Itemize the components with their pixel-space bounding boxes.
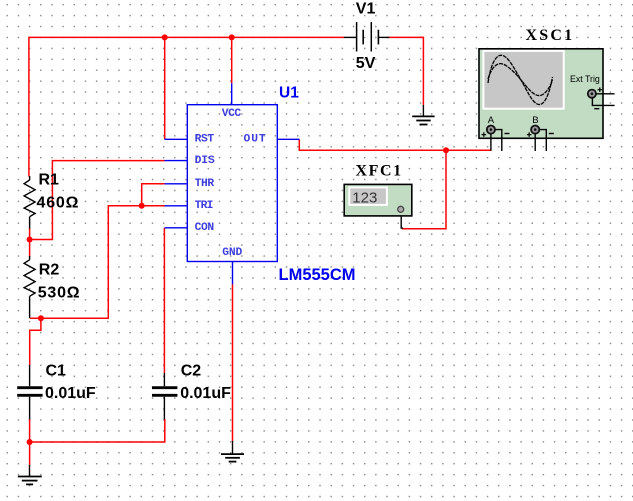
- svg-text:XSC1: XSC1: [526, 27, 575, 44]
- junction OUT net at XFC1 branch: [443, 147, 449, 153]
- wire: bottom net C1 node to C2 bottom: [30, 419, 165, 442]
- wire: battery positive to ground drop: [389, 37, 424, 105]
- svg-text:Ext Trig: Ext Trig: [570, 74, 600, 84]
- pin GND stub: [232, 262, 234, 285]
- junction on top rail at RST drop: [162, 34, 168, 40]
- Ext Trig terminal: [588, 90, 596, 98]
- svg-text:R2: R2: [39, 261, 60, 278]
- junction TRI net at THR link: [139, 203, 145, 209]
- wire: R2 bottom node jog down to C1: [30, 318, 41, 365]
- wire: OUT net to scope channel A: [299, 139, 491, 150]
- frequency counter XFC1: [344, 184, 412, 216]
- pin CON stub: [165, 227, 188, 229]
- capacitor C2: [152, 373, 177, 419]
- svg-text:530Ω: 530Ω: [38, 284, 81, 301]
- svg-text:VCC: VCC: [222, 108, 242, 120]
- wire: CON pin down to C2: [163, 228, 165, 373]
- terminal A: [487, 126, 495, 134]
- wire: XFC1 terminal lead (black): [401, 212, 403, 228]
- battery V1: [344, 22, 390, 51]
- wire: R1/R2 node to DIS pin: [30, 161, 165, 240]
- svg-text:R1: R1: [39, 171, 60, 188]
- pin THR stub: [165, 183, 188, 185]
- svg-text:123: 123: [352, 189, 377, 206]
- svg-text:OUT: OUT: [244, 133, 266, 145]
- ground (battery): [412, 105, 434, 125]
- pin VCC stub: [231, 83, 233, 105]
- terminal B: [531, 126, 539, 134]
- svg-text:C2: C2: [181, 363, 202, 380]
- wire: drop from top rail to RST pin: [164, 37, 166, 139]
- svg-text:LM555CM: LM555CM: [279, 266, 356, 284]
- svg-text:V1: V1: [356, 0, 376, 17]
- svg-text:C1: C1: [46, 363, 67, 380]
- wire: C1 bottom to ground node: [29, 419, 31, 442]
- svg-text:THR: THR: [195, 178, 215, 190]
- resistor R1: [24, 176, 35, 229]
- wire: TRI pin net: [30, 206, 165, 318]
- svg-text:GND: GND: [222, 247, 242, 259]
- pin RST stub: [165, 138, 188, 140]
- junction on top rail at VCC drop: [229, 34, 235, 40]
- junction R1/R2 node: [27, 237, 33, 243]
- terminal A stubs: [490, 134, 492, 151]
- ground (U1 GND): [221, 441, 244, 462]
- junction bottom ground node: [27, 439, 33, 445]
- ground (bottom left): [18, 465, 42, 484]
- svg-text:U1: U1: [279, 85, 299, 102]
- junction R2 bottom node: [38, 315, 44, 321]
- wire: ground node to bottom-left ground: [29, 442, 31, 465]
- svg-text:XFC1: XFC1: [356, 163, 403, 180]
- terminal B stubs: [534, 134, 536, 151]
- svg-text:460Ω: 460Ω: [37, 194, 80, 211]
- scope trace B: [488, 64, 553, 96]
- resistor R2: [24, 256, 35, 318]
- capacitor C1: [17, 365, 42, 419]
- pin OUT stub: [277, 138, 299, 140]
- IC U1 LM555CM 555-timer body: [165, 83, 300, 284]
- svg-text:B: B: [532, 115, 538, 126]
- wire: drop from top rail to VCC pin: [231, 37, 233, 83]
- Ext Trig stubs: [596, 93, 614, 95]
- svg-text:DIS: DIS: [195, 155, 215, 167]
- svg-text:RST: RST: [195, 133, 215, 145]
- pin TRI stub: [165, 205, 188, 207]
- wire: left vertical rail down to R1: [28, 37, 30, 177]
- pin labels U1: [195, 108, 266, 259]
- svg-text:0.01uF: 0.01uF: [45, 385, 96, 402]
- wire: GND pin down to ground: [232, 284, 234, 441]
- svg-text:A: A: [488, 115, 495, 126]
- svg-text:0.01uF: 0.01uF: [180, 385, 231, 402]
- scope trace A: [488, 55, 553, 104]
- wire: OUT net branch down to XFC1: [402, 150, 446, 229]
- wire: R1 bottom to R2 top: [29, 228, 31, 257]
- svg-text:TRI: TRI: [195, 200, 214, 212]
- oscilloscope XSC1: [479, 49, 615, 151]
- pin DIS stub: [165, 160, 188, 162]
- XFC1 terminal: [398, 206, 404, 212]
- wire: THR pin link down to TRI net: [142, 184, 165, 206]
- wire: top power rail from left rail to battery V1: [29, 36, 345, 38]
- svg-text:5V: 5V: [356, 55, 376, 72]
- svg-text:CON: CON: [195, 222, 215, 234]
